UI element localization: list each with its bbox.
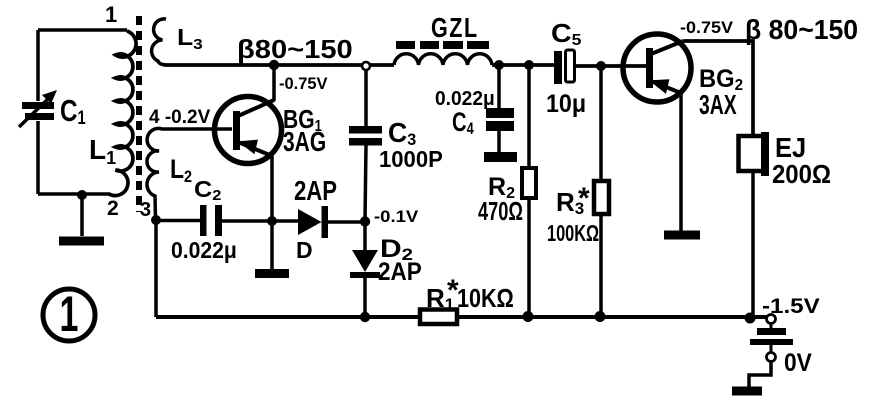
resistor R2 <box>522 65 536 317</box>
wire top-left horizontal <box>38 28 127 32</box>
ferrite core (dashed) <box>136 16 142 212</box>
svg-text:10μ: 10μ <box>546 90 586 118</box>
wire bottom-left horizontal <box>38 192 110 196</box>
wire C5 to BG2 base <box>576 64 646 68</box>
node -0.1V junction <box>360 216 370 226</box>
svg-text:L3: L3 <box>177 26 203 53</box>
node R3 top <box>596 61 606 71</box>
svg-text:-0.1V: -0.1V <box>374 207 418 226</box>
svg-text:β80~150: β80~150 <box>237 34 353 63</box>
svg-text:L2: L2 <box>170 154 192 186</box>
GZL core dashes <box>396 41 489 49</box>
svg-text:1: 1 <box>60 287 79 343</box>
svg-text:C1: C1 <box>60 93 86 128</box>
speaker EJ <box>739 132 770 317</box>
wire left vertical lower <box>36 121 40 194</box>
wire BG2 emitter <box>679 93 683 231</box>
svg-text:C4: C4 <box>452 107 474 138</box>
inductor L3 <box>152 19 166 65</box>
svg-text:GZL: GZL <box>431 12 479 43</box>
node R2 top <box>524 60 534 70</box>
wire rail GZL to C5 <box>492 63 554 67</box>
battery cell <box>750 324 793 353</box>
svg-text:1000P: 1000P <box>379 147 443 173</box>
wire C3 to -0.1V node <box>365 145 366 221</box>
svg-text:200Ω: 200Ω <box>772 160 831 189</box>
svg-text:1: 1 <box>105 2 117 27</box>
svg-text:*: * <box>578 182 590 215</box>
svg-text:C2: C2 <box>194 177 222 204</box>
wire C3 column upper <box>364 70 368 127</box>
svg-text:0V: 0V <box>784 349 812 377</box>
svg-text:L1: L1 <box>89 134 116 168</box>
inductor GZL <box>394 54 492 65</box>
node R2 bottom <box>523 311 534 322</box>
node BG1 collector on rail <box>269 60 279 70</box>
wire bottom rail right part <box>457 315 767 319</box>
svg-text:C5: C5 <box>551 18 581 49</box>
transistor BG1 <box>215 97 282 222</box>
svg-text:EJ: EJ <box>775 132 806 163</box>
inductor L1 <box>109 31 136 196</box>
diode D2 2AP <box>350 221 380 317</box>
wire node3 down to bottom rail <box>154 220 158 317</box>
capacitor C3 <box>349 126 382 146</box>
inductor L2 <box>147 128 232 219</box>
capacitor C1 (variable) <box>19 90 57 127</box>
wire left vertical upper <box>36 30 40 101</box>
svg-text:2: 2 <box>107 197 119 220</box>
svg-text:3AX: 3AX <box>699 90 737 121</box>
capacitor C2 <box>200 205 222 236</box>
svg-text:D: D <box>296 237 313 263</box>
wire BG2 collector to EJ <box>683 41 753 136</box>
wire BG1 collector <box>272 65 276 101</box>
wire battery to ground <box>749 362 771 388</box>
svg-text:470Ω: 470Ω <box>478 197 523 226</box>
wire C2 to diode D <box>222 219 298 223</box>
svg-text:-1.5V: -1.5V <box>762 294 820 317</box>
svg-text:β 80~150: β 80~150 <box>745 13 858 45</box>
node D2 bottom <box>360 312 370 322</box>
node C4 top <box>494 60 504 70</box>
open node on rail (C3 top) <box>362 62 370 70</box>
ground (battery) <box>732 387 762 396</box>
wire bottom rail left part <box>156 315 420 319</box>
svg-text:-0.75V: -0.75V <box>279 74 328 93</box>
diode D 2AP <box>298 206 365 238</box>
battery terminal -1.5V <box>767 315 776 324</box>
capacitor C4 <box>486 65 514 153</box>
svg-text:0.022μ: 0.022μ <box>171 237 237 263</box>
wire top rail (L3 to GZL) <box>164 63 394 67</box>
node R3 bottom <box>595 311 606 322</box>
svg-text:3AG: 3AG <box>283 127 326 158</box>
svg-text:2AP: 2AP <box>378 258 422 286</box>
svg-text:4 -0.2V: 4 -0.2V <box>149 107 211 128</box>
ground (BG1 emitter) <box>255 221 289 274</box>
svg-text:100KΩ: 100KΩ <box>547 221 599 246</box>
node EJ bottom <box>745 313 756 324</box>
svg-text:2AP: 2AP <box>294 176 337 207</box>
battery terminal 0V <box>767 353 776 362</box>
node BG1 emitter junction <box>267 216 277 226</box>
svg-text:C3: C3 <box>388 116 416 149</box>
node junction at bottom of L1 <box>77 190 87 200</box>
resistor R3 <box>594 66 609 316</box>
ground (C4) <box>484 152 517 162</box>
svg-text:10KΩ: 10KΩ <box>457 284 514 313</box>
svg-text:3: 3 <box>140 199 151 221</box>
wire node3 to C2 <box>156 219 200 223</box>
figure number circle 1 <box>43 289 95 341</box>
resistor R1 <box>420 310 457 325</box>
svg-text:-0.75V: -0.75V <box>680 17 733 36</box>
node 3 junction <box>151 215 161 225</box>
capacitor C5 (electrolytic) <box>554 50 575 84</box>
ground (BG2 emitter) <box>664 231 700 240</box>
ground (tank circuit) <box>59 195 104 241</box>
transistor BG2 <box>623 34 691 102</box>
